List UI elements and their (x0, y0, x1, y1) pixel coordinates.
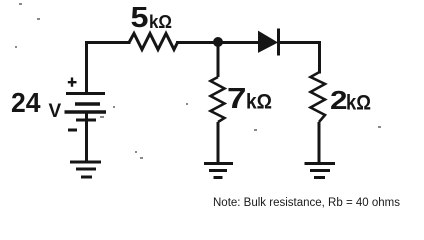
node junction dot (213, 37, 223, 47)
wire: 2k resistor to ground (318, 122, 321, 162)
svg-text:24: 24 (11, 87, 41, 118)
svg-text:kΩ: kΩ (346, 91, 371, 115)
wire: top wire from diode cathode to right corner, down to 2k resistor (280, 43, 320, 73)
svg-text:Note: Bulk resistance, Rb = 40: Note: Bulk resistance, Rb = 40 ohms (213, 197, 400, 209)
svg-text:2: 2 (330, 85, 348, 115)
wire: 7k resistor to ground (217, 122, 220, 162)
svg-text:7: 7 (227, 83, 247, 115)
ground symbol (right, under 2k) (305, 164, 336, 178)
plus sign of battery (68, 78, 77, 87)
ground symbol (middle, under 7k) (204, 164, 233, 178)
wire: battery negative to ground (85, 112, 88, 162)
wire: top wire from 5k resistor to diode anode (178, 41, 260, 44)
ground symbol (left, under battery) (70, 162, 101, 177)
wire: node down to 7k resistor (217, 45, 220, 77)
svg-text:kΩ: kΩ (149, 11, 172, 32)
resistor R 7kOhm zigzag (211, 77, 225, 122)
scan noise specks (decorative) (15, 3, 381, 159)
resistor R 2kOhm zigzag (311, 72, 326, 122)
svg-text:kΩ: kΩ (246, 90, 272, 114)
wire: top wire left segment from battery corner to 5k resistor (87, 43, 130, 94)
resistor R 5kOhm zigzag (129, 34, 178, 50)
svg-text:V: V (49, 101, 62, 122)
battery V1 24V plates (65, 94, 107, 121)
diode D1 (anode left, cathode right) (259, 29, 279, 56)
minus sign of battery (68, 129, 77, 132)
svg-text:5: 5 (131, 2, 149, 34)
